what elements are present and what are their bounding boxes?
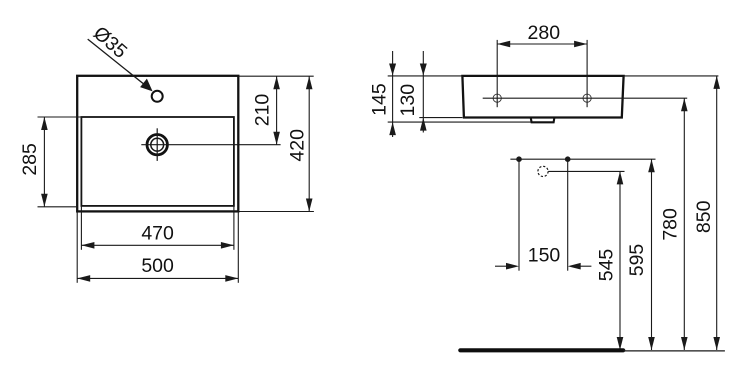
label 545 xyxy=(596,249,618,282)
dimension 130 bottom extension xyxy=(419,117,462,119)
extension line bottom right (rect bottom to 420 dim) xyxy=(238,211,314,213)
dimension 145 bottom extension xyxy=(388,121,531,123)
svg-text:145: 145 xyxy=(368,83,390,116)
dimension 280 extension right xyxy=(586,40,588,107)
svg-text:780: 780 xyxy=(659,208,681,241)
dimension 595 line with arrows xyxy=(648,159,655,350)
floor line thick xyxy=(460,348,623,352)
mounting hole left xyxy=(493,94,501,102)
basin inner bowl rectangle xyxy=(81,117,234,206)
basin outer rim rectangle xyxy=(77,76,238,212)
svg-text:545: 545 xyxy=(596,249,618,282)
dimension 470 extension left xyxy=(80,206,82,250)
dimension 850 line with arrows xyxy=(713,76,720,350)
dimension 500 extension right xyxy=(237,212,239,283)
extension line top left of body xyxy=(388,75,463,77)
basin body outline (side) xyxy=(462,76,623,118)
dimension 145 line with outside arrows xyxy=(389,51,396,137)
mounting hole right xyxy=(583,94,591,102)
drain centerline to right (extension for 210) xyxy=(141,144,280,146)
svg-text:210: 210 xyxy=(252,94,274,127)
dimension 280 extension left xyxy=(496,40,498,107)
label Ø35 xyxy=(89,22,131,63)
dimension 285 line with arrows xyxy=(41,117,48,207)
faucet hole circle xyxy=(152,91,163,102)
label 130 xyxy=(397,84,419,117)
label 210 xyxy=(252,94,274,127)
svg-text:Ø35: Ø35 xyxy=(89,22,131,63)
extension line down from right bolt xyxy=(567,159,569,271)
svg-text:850: 850 xyxy=(693,200,715,233)
dimension 470 line with arrows xyxy=(81,242,234,249)
label 500 xyxy=(141,255,174,277)
label 780 xyxy=(659,208,681,241)
fixing bolts line (595 level) xyxy=(510,158,655,160)
drain inner circle xyxy=(151,138,164,151)
svg-text:150: 150 xyxy=(528,245,561,267)
overflow tab under body xyxy=(531,118,555,123)
dimension 150 right segment with arrow xyxy=(568,263,592,270)
bolt node right xyxy=(565,156,571,162)
dimension 780 line with arrows xyxy=(681,98,688,350)
svg-text:420: 420 xyxy=(287,129,309,162)
label 285 xyxy=(19,143,41,176)
dimension 545 line with arrows xyxy=(617,171,624,350)
floor line thin xyxy=(623,350,725,352)
svg-text:130: 130 xyxy=(397,84,419,117)
label 145 xyxy=(368,83,390,116)
label 420 xyxy=(287,129,309,162)
bolt node left xyxy=(516,156,522,162)
label 280 xyxy=(528,22,561,44)
label 470 xyxy=(141,222,174,244)
extension line top right of body (to 850) xyxy=(624,75,719,77)
dimension 500 line with arrows xyxy=(77,275,238,282)
label 595 xyxy=(626,244,648,277)
drain outer circle xyxy=(147,135,167,155)
drain crosshair vertical xyxy=(156,128,158,161)
label 850 xyxy=(693,200,715,233)
svg-text:280: 280 xyxy=(528,22,561,44)
svg-text:470: 470 xyxy=(141,222,174,244)
extension line down from left bolt xyxy=(518,159,520,271)
holes centerline xyxy=(483,97,688,99)
dimension 500 extension left xyxy=(76,212,78,283)
extension line top right (rect top to 420 dim) xyxy=(238,75,313,77)
svg-text:285: 285 xyxy=(19,143,41,176)
dimension 150 left segment with arrow xyxy=(495,263,519,270)
dimension 210 line with arrows xyxy=(273,76,280,145)
dimension 470 extension right xyxy=(233,206,235,250)
svg-text:595: 595 xyxy=(626,244,648,277)
label 150 xyxy=(528,245,561,267)
dimension 285 extension bottom xyxy=(38,206,78,208)
trap outlet dashed circle xyxy=(538,166,548,176)
dimension 280 line with arrows xyxy=(497,41,587,48)
dimension 285 extension top xyxy=(38,116,82,118)
leader line for Ø35 xyxy=(88,39,153,91)
dimension 130 line with outside arrows xyxy=(420,51,427,133)
svg-text:500: 500 xyxy=(141,255,174,277)
outlet centerline (545 level) xyxy=(548,170,624,172)
dimension 420 line with arrows xyxy=(306,76,313,211)
